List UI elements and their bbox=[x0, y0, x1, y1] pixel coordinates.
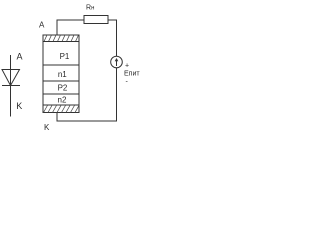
anode contact hatching bbox=[44, 35, 79, 42]
svg-text:P2: P2 bbox=[58, 84, 68, 93]
anode contact lower edge bbox=[43, 41, 79, 43]
svg-text:n2: n2 bbox=[58, 96, 67, 105]
source arrow head bbox=[115, 58, 119, 61]
svg-text:+: + bbox=[125, 62, 129, 69]
resistor Rn body bbox=[84, 16, 108, 24]
wire anode to resistor bbox=[57, 20, 84, 35]
svg-text:-: - bbox=[126, 78, 129, 85]
cathode contact upper edge bbox=[43, 104, 79, 106]
junction J1 (P1/n1) bbox=[43, 64, 79, 66]
svg-text:A: A bbox=[39, 21, 45, 30]
current source E circle bbox=[111, 56, 123, 68]
diode VD anode wire bbox=[10, 55, 12, 86]
svg-text:K: K bbox=[16, 101, 22, 111]
source arrow shaft bbox=[116, 60, 118, 67]
return wire source to cathode bbox=[57, 68, 117, 121]
wire resistor to source bbox=[108, 20, 117, 56]
svg-text:n1: n1 bbox=[58, 70, 67, 79]
svg-text:Епит: Епит bbox=[124, 71, 140, 78]
diode VD cathode wire bbox=[10, 86, 12, 117]
junction J3 (P2/n2) bbox=[43, 93, 79, 95]
svg-text:Rн: Rн bbox=[86, 5, 94, 12]
svg-text:K: K bbox=[44, 123, 50, 132]
thyristor structure outline bbox=[43, 35, 79, 113]
diode VD triangle bbox=[2, 70, 20, 86]
diode VD cathode bar bbox=[2, 85, 20, 87]
cathode contact hatching bbox=[44, 105, 79, 113]
junction J2 (n1/P2) bbox=[43, 80, 79, 82]
svg-text:P1: P1 bbox=[60, 52, 70, 61]
svg-text:A: A bbox=[17, 52, 23, 62]
